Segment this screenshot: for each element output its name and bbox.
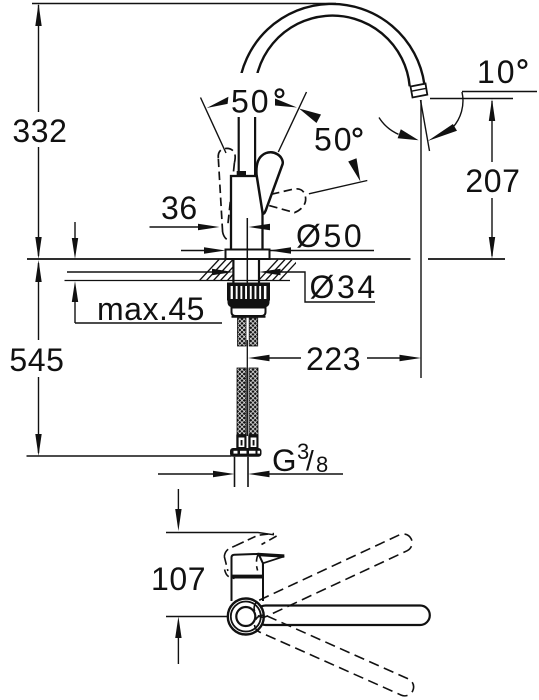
water stream vertical line	[420, 100, 422, 378]
spout end cap	[411, 84, 428, 98]
svg-text:107: 107	[151, 561, 206, 597]
svg-text:G: G	[272, 442, 297, 478]
top view inner circle	[236, 607, 255, 626]
deck bottom line	[65, 280, 291, 282]
hatching right of shank	[258, 260, 299, 282]
50 deg label (first)	[227, 73, 289, 117]
top view circles	[228, 599, 264, 635]
svg-text:50: 50	[231, 84, 271, 120]
top view solid spout bar	[256, 606, 430, 626]
top view body	[231, 577, 233, 601]
dimension 545 arrowheads	[35, 260, 41, 282]
centerline upper	[246, 218, 248, 283]
riser tube lines	[238, 100, 240, 176]
10 deg horizontal reference line	[462, 91, 537, 93]
107 bottom reference line	[166, 616, 228, 618]
svg-text:max.45: max.45	[97, 291, 205, 327]
svg-text:Ø34: Ø34	[310, 269, 378, 305]
spout arc outer	[239, 4, 425, 96]
545 bottom reference line	[27, 455, 232, 457]
flange	[226, 250, 270, 260]
10 deg angle arc right	[452, 92, 463, 128]
top view lever	[232, 554, 285, 578]
max.45 dimension	[75, 222, 222, 323]
svg-text:Ø50: Ø50	[296, 218, 364, 254]
body of faucet	[231, 176, 263, 250]
svg-text:10: 10	[477, 54, 517, 90]
G3/8 thread tube	[234, 457, 236, 487]
10 deg tilted line	[421, 100, 430, 151]
Ø50 dimension	[181, 250, 205, 252]
top reference line	[32, 3, 336, 5]
10 deg angle arc left	[379, 118, 399, 135]
top view dashed spout bar upper	[251, 531, 415, 620]
svg-text:50: 50	[314, 122, 354, 158]
mounting nut ribbed	[227, 283, 270, 308]
svg-text:/: /	[306, 445, 314, 476]
hoses upper section	[238, 318, 247, 346]
centerline in hose gap	[246, 340, 248, 436]
107 bottom arrow	[175, 617, 181, 639]
spout arc inner	[255, 16, 410, 100]
nut collar	[232, 308, 266, 317]
svg-text:36: 36	[161, 190, 198, 226]
107 top reference line	[166, 533, 274, 535]
207 top extension line	[430, 98, 513, 100]
dashed lever rotated right	[266, 189, 305, 213]
top view dashed lever	[224, 534, 276, 579]
207 dimension line	[491, 101, 493, 256]
hatching left of shank	[199, 260, 247, 282]
50 deg first leader lines	[201, 98, 227, 154]
hoses lower section	[237, 368, 246, 435]
svg-text:332: 332	[12, 113, 67, 149]
hose crimp ends	[236, 435, 258, 449]
shank below deck	[232, 259, 234, 283]
pivot tab	[237, 171, 246, 177]
dimension 545 vertical line	[38, 263, 40, 453]
top view dashed spout bar lower	[252, 612, 417, 698]
svg-text:545: 545	[9, 342, 64, 378]
Ø34 dimension	[67, 271, 212, 273]
deck top line	[27, 258, 411, 260]
svg-text:207: 207	[465, 163, 520, 199]
dashed lever (vertical position, left)	[218, 148, 243, 241]
223 dimension	[248, 355, 270, 361]
svg-text:223: 223	[306, 341, 361, 377]
dimension 332 arrowheads	[35, 4, 41, 27]
50 deg second leader	[309, 181, 367, 194]
G3/8 connector black band	[230, 448, 262, 457]
solid lever	[256, 152, 282, 213]
dimension 332 vertical line	[38, 5, 40, 256]
svg-text:8: 8	[316, 452, 328, 477]
G3/8 dimension	[158, 473, 215, 475]
107 dimension top arrow	[177, 489, 179, 514]
50 deg first leader arrowheads	[207, 97, 229, 108]
